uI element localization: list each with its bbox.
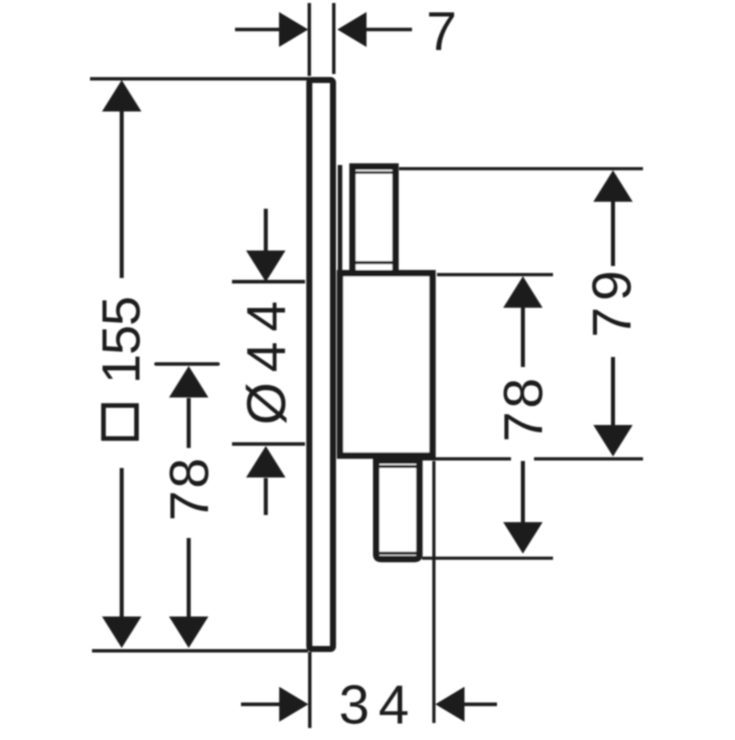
dim 34: right extension line [432, 461, 435, 723]
dim 44: lower leader line [264, 478, 268, 515]
dim 44: upper extension line [232, 280, 305, 284]
dim 155: top extension line [90, 77, 310, 80]
arrowhead dim78-right bottom (points down) [503, 522, 542, 554]
arrowhead dim44 upper (points down) [246, 251, 285, 283]
dim 44: upper leader line [264, 209, 268, 252]
dim 79: dimension line upper segment [611, 201, 615, 266]
bottom stem [376, 461, 419, 560]
arrowhead dim79 bottom (points down) [593, 425, 632, 457]
dim 155: dimension line lower segment [120, 468, 124, 617]
dim 34: left leader line [241, 702, 281, 706]
cartridge body [340, 273, 433, 455]
dim 34: right leader line [463, 702, 497, 706]
arrowhead dim78-right top (points up) [503, 276, 542, 308]
arrowhead dim155 bottom (points down) [102, 617, 141, 649]
arrowhead dim7 right (points left) [337, 12, 366, 47]
dim 79: dimension line lower segment [611, 357, 615, 426]
top stem inner line lower [356, 261, 393, 264]
arrowhead dim44 lower (points up) [246, 446, 285, 478]
dim 7: right extension line [332, 3, 335, 74]
dim 7: left leader line [235, 28, 280, 32]
dim 155: dimension line upper segment [120, 111, 124, 278]
dim 78 left: center tick line [156, 362, 218, 366]
svg-text:79: 79 [581, 264, 643, 337]
svg-text:7: 7 [426, 0, 457, 62]
dim 78 left: dimension line upper segment [187, 398, 191, 448]
dim 78 right: top extension line [437, 273, 553, 276]
arrowhead dim79 top (points up) [593, 170, 632, 202]
arrowhead dim7 left (points right) [279, 12, 308, 47]
dim 79: bottom extension line (gap at 78-line crossing) [420, 457, 511, 460]
dim 34: left extension line [308, 652, 311, 728]
svg-text:78: 78 [158, 456, 220, 521]
dim 79: top extension line [399, 167, 643, 170]
dim 155: bottom extension line [92, 649, 308, 652]
bottom stem inner line upper [380, 465, 417, 468]
svg-text:34: 34 [339, 674, 418, 736]
dim 78 right: bottom extension line [422, 557, 553, 560]
front plate (155x155x7, side view) [309, 80, 333, 649]
svg-text:78: 78 [492, 375, 554, 442]
dim 7: left extension line [308, 3, 311, 76]
svg-text:Ø44: Ø44 [235, 291, 297, 425]
arrowhead dim34 right (points left) [435, 687, 464, 722]
arrowhead dim78-left bottom (points down) [169, 617, 208, 649]
arrowhead dim78-left top (points up) [169, 366, 208, 398]
bottom stem inner line lower [380, 552, 417, 555]
arrowhead dim34 left (points right) [279, 687, 308, 722]
dim 78 right: dimension line lower segment [521, 461, 525, 525]
dim 7: right leader line [366, 28, 412, 32]
svg-text:155: 155 [92, 297, 152, 384]
arrowhead dim155 top (points up) [102, 80, 141, 112]
top stem [353, 167, 396, 274]
top stem inner line upper [356, 171, 393, 174]
sleeve edge line behind plate [338, 165, 343, 272]
dim 44: lower extension line [232, 442, 305, 446]
dim 78 right: dimension line upper segment [521, 306, 525, 367]
label square-155 (rotated, left) [104, 406, 137, 439]
dim 78 left: dimension line lower segment [187, 538, 191, 617]
